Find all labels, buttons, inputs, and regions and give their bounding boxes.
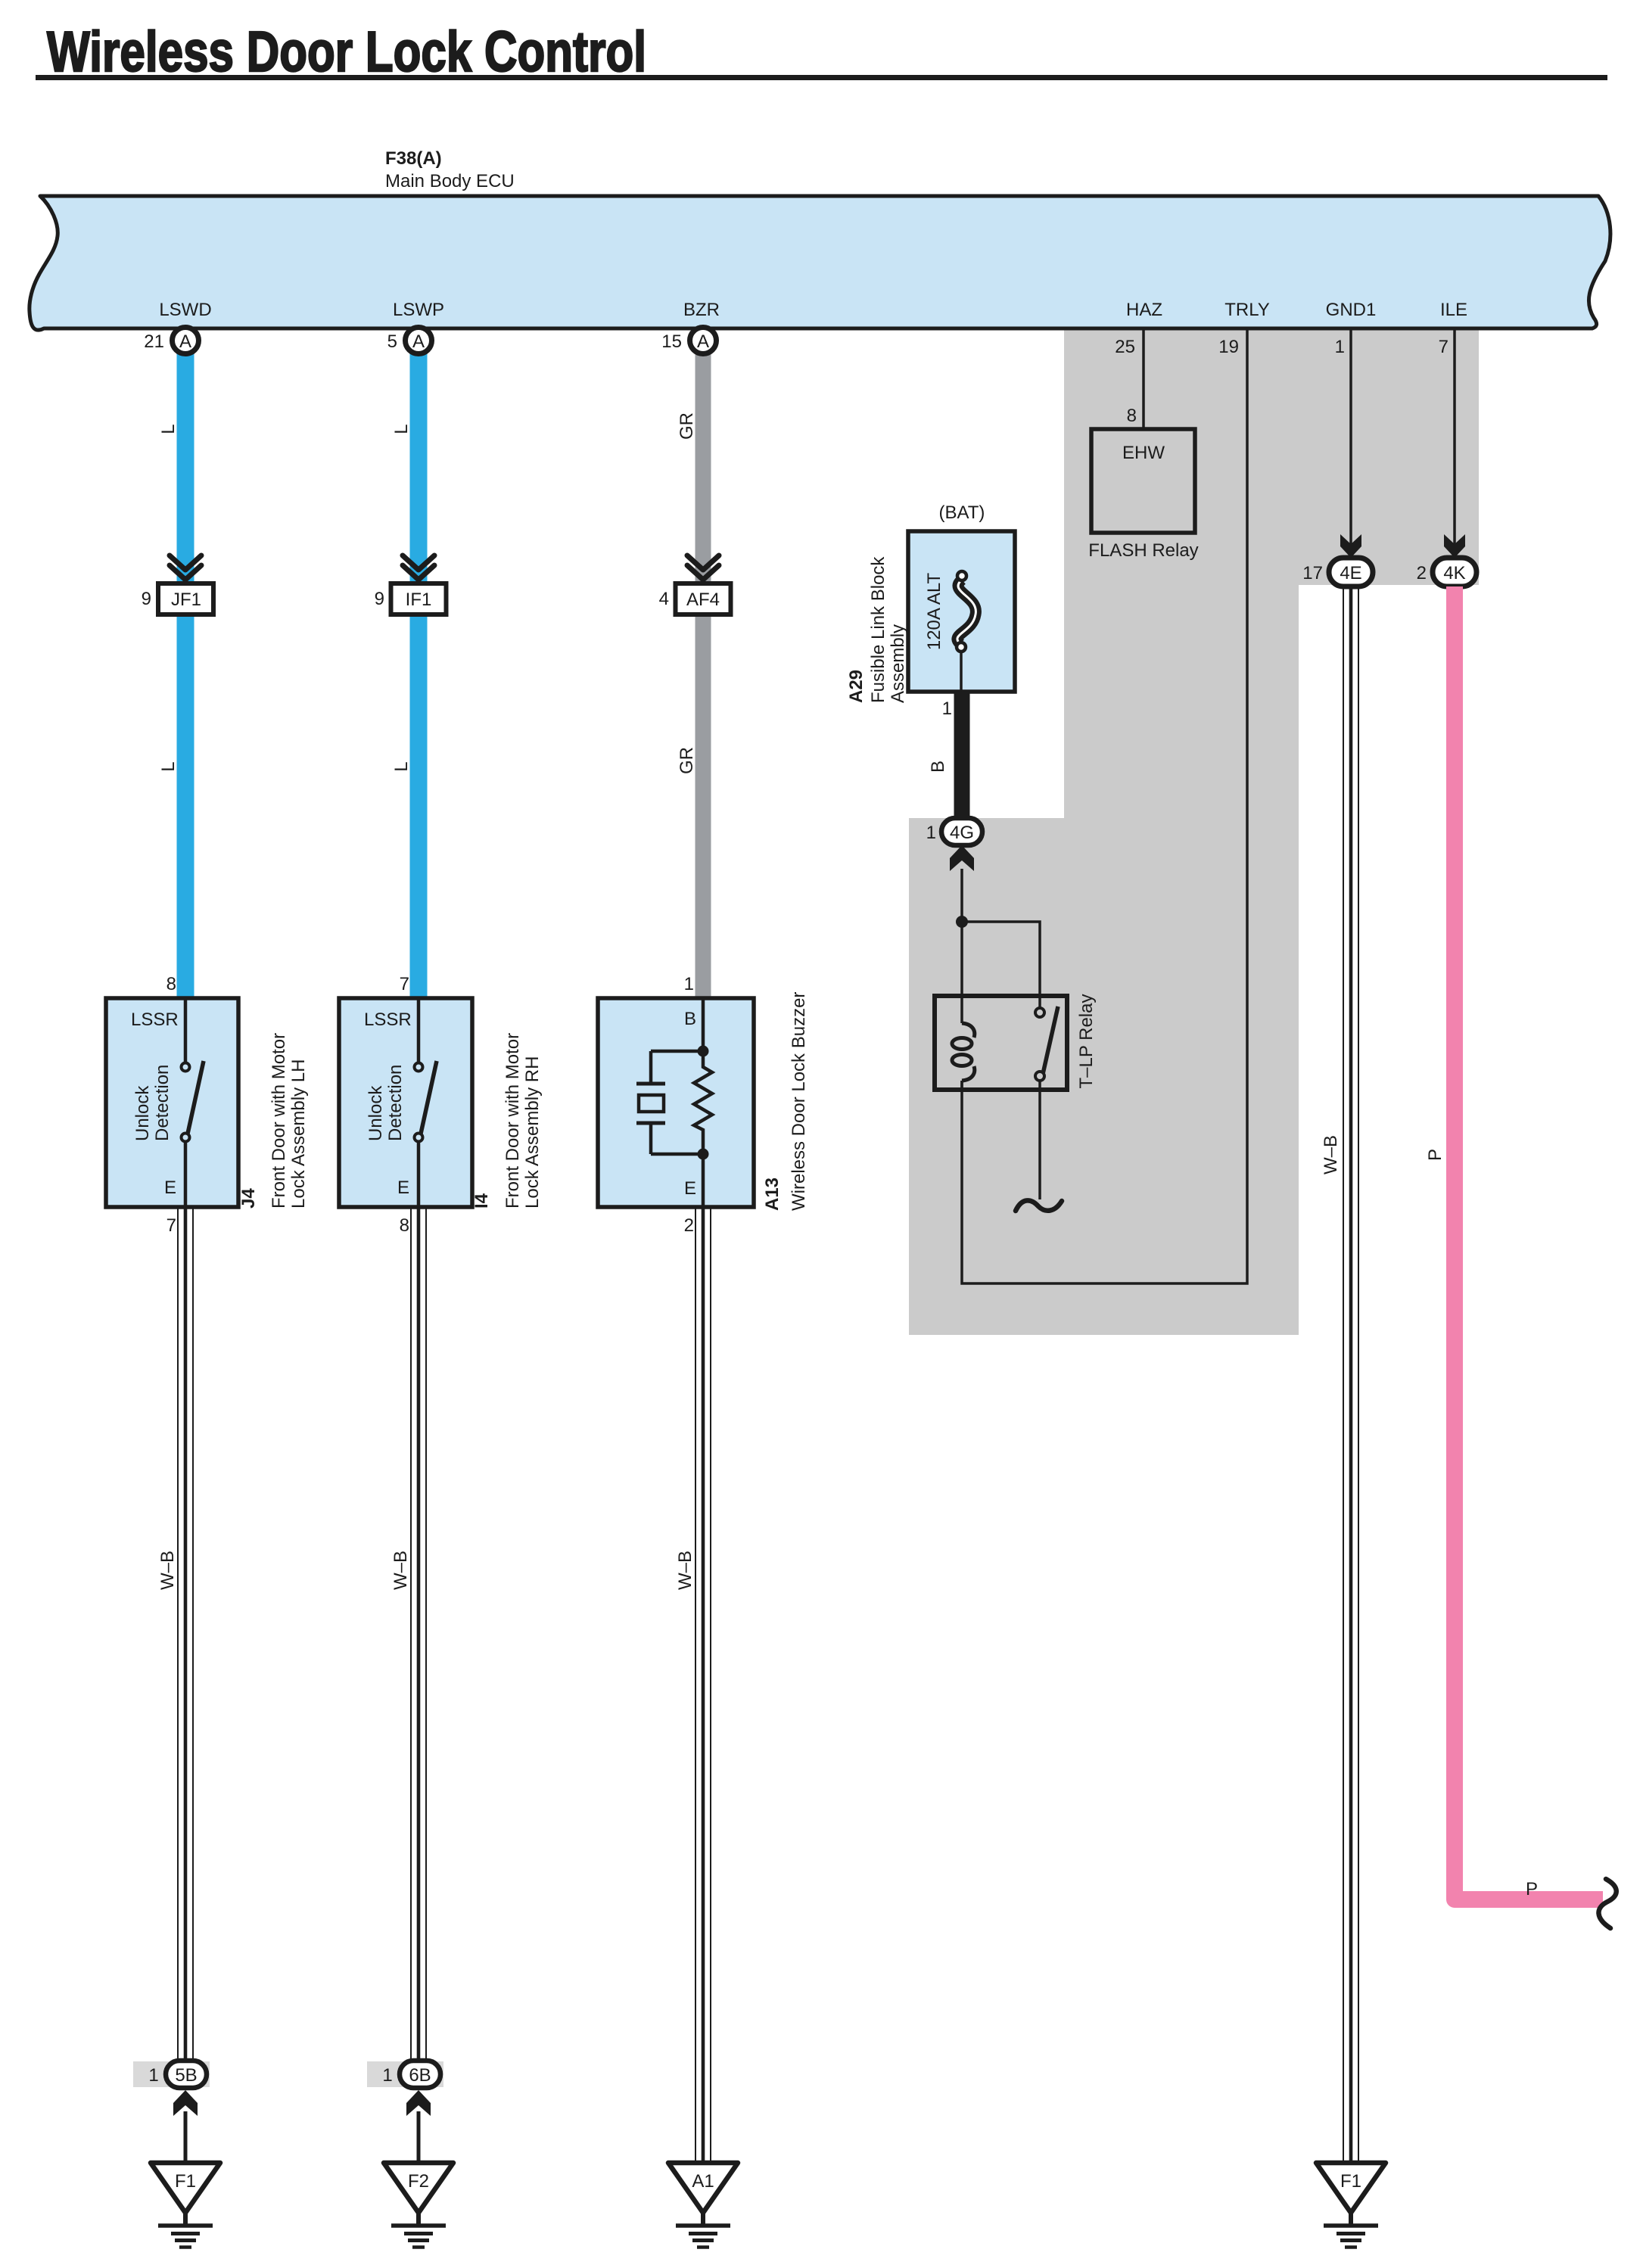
unlock detection switch (RH) [415,998,437,1207]
arrow into 6B [406,2090,431,2116]
svg-text:A: A [412,331,425,352]
wire 5B to ground [184,2111,188,2163]
relay box T-LP Relay [935,996,1067,1090]
svg-text:15: 15 [661,331,682,352]
svg-text:Unlock: Unlock [132,1085,153,1141]
connector 4G pin 1 [926,818,982,845]
svg-text:A13: A13 [762,1178,783,1211]
svg-text:4G: 4G [950,823,974,843]
ground F2 [384,2163,453,2248]
svg-text:T–LP Relay: T–LP Relay [1076,994,1097,1089]
arrow into 4E [1340,534,1361,558]
svg-text:19: 19 [1218,337,1239,357]
wire TRLY to relay coil [962,328,1247,1283]
connector A circle pin 21 (LSWD) [144,328,198,354]
svg-text:1: 1 [926,823,936,843]
wire 4G to junction [960,869,963,922]
wire B black (fusible link to 4G) [954,692,970,818]
svg-text:L: L [391,424,412,434]
wire W-B (4E to ground F1 right) [1343,586,1358,2163]
svg-text:Front Door with Motor: Front Door with Motor [503,1033,523,1209]
wire P pink (4K) [1455,586,1603,1899]
svg-text:8: 8 [400,1215,409,1236]
svg-text:BZR: BZR [683,300,720,320]
svg-text:Lock Assembly LH: Lock Assembly LH [288,1059,309,1209]
svg-text:A1: A1 [692,2171,714,2192]
svg-text:JF1: JF1 [171,590,201,610]
svg-text:FLASH Relay: FLASH Relay [1088,540,1198,561]
svg-text:1: 1 [382,2065,392,2086]
svg-text:ILE: ILE [1440,300,1467,320]
component A13 Wireless Door Lock Buzzer [598,974,754,1236]
junction node [956,916,968,928]
title [36,20,1607,83]
wire W-B (LSWD to 5B) [178,1207,193,2061]
connector IF1 pin 9 [375,583,447,614]
svg-text:1: 1 [684,974,694,994]
ground F1 (left) [151,2163,220,2248]
svg-text:F38(A): F38(A) [385,148,442,169]
svg-text:J4: J4 [238,1188,259,1209]
svg-text:Lock Assembly RH: Lock Assembly RH [522,1056,543,1209]
svg-text:Fusible Link Block: Fusible Link Block [868,556,888,703]
connector 5B pin 1 [133,2061,210,2088]
svg-text:GR: GR [677,412,697,440]
svg-text:AF4: AF4 [686,590,720,610]
splice chevrons (LSWD) [170,555,201,580]
svg-text:1: 1 [942,698,952,719]
wire W-B (buzzer to ground A1) [695,1207,711,2163]
svg-text:120A ALT: 120A ALT [924,573,944,651]
svg-text:LSWD: LSWD [159,300,211,320]
svg-text:Wireless Door Lock Control: Wireless Door Lock Control [47,20,646,83]
svg-text:7: 7 [166,1215,176,1236]
connector 6B pin 1 [367,2061,443,2088]
continuation squiggle (pink wire end) [1598,1879,1616,1928]
svg-text:Wireless Door Lock Buzzer: Wireless Door Lock Buzzer [789,992,809,1211]
connector A circle pin 5 (LSWP) [387,328,432,354]
svg-text:7: 7 [400,974,409,994]
svg-text:B: B [684,1009,696,1029]
ground F1 (right) [1316,2163,1386,2248]
svg-text:W–B: W–B [157,1551,178,1590]
svg-text:LSSR: LSSR [131,1010,179,1030]
svg-text:8: 8 [166,974,176,994]
fusible link 120A ALT symbol [957,571,976,692]
svg-text:A29: A29 [846,670,867,703]
wire W-B (LSWP to 6B) [411,1207,426,2061]
wire junction to relay switch [962,922,1040,1008]
svg-text:8: 8 [1127,406,1137,426]
svg-text:L: L [158,761,179,771]
svg-text:(BAT): (BAT) [939,502,985,523]
svg-text:5B: 5B [175,2065,197,2086]
wire BZR gray GR [695,350,711,998]
wire junction to relay coil [960,922,963,1023]
svg-text:A: A [179,331,191,352]
svg-text:GND1: GND1 [1326,300,1377,320]
svg-text:E: E [684,1178,696,1199]
svg-text:25: 25 [1115,337,1135,357]
splice chevrons (LSWP) [403,555,434,580]
svg-text:P: P [1526,1879,1538,1899]
wire 6B to ground [417,2111,421,2163]
wire LSWD blue L [177,350,194,998]
svg-text:5: 5 [387,331,397,352]
connector AF4 pin 4 [659,583,731,614]
junction dot buzzer bottom [698,1149,709,1160]
svg-text:LSSR: LSSR [364,1010,412,1030]
svg-text:I4: I4 [471,1193,492,1209]
svg-text:21: 21 [144,331,164,352]
component J4 Front Door with Motor Lock Assembly LH [106,974,238,1236]
svg-text:F1: F1 [175,2171,196,2192]
arrow into 4G [950,845,974,871]
svg-text:6B: 6B [409,2065,431,2086]
FLASH relay box EHW [1088,429,1198,561]
svg-text:A: A [697,331,709,352]
svg-text:LSWP: LSWP [393,300,444,320]
svg-text:2: 2 [1417,563,1427,583]
wire HAZ to EHW relay [1142,328,1145,429]
svg-text:17: 17 [1302,563,1323,583]
svg-text:Unlock: Unlock [366,1085,386,1141]
arrow into 4K [1444,534,1465,558]
svg-text:Front Door with Motor: Front Door with Motor [269,1033,289,1209]
svg-text:7: 7 [1439,337,1449,357]
relay coil [952,1023,975,1090]
svg-text:1: 1 [148,2065,158,2086]
svg-text:W–B: W–B [1321,1135,1341,1174]
svg-text:IF1: IF1 [406,590,432,610]
relay switch [1035,1006,1058,1199]
svg-text:Assembly: Assembly [888,624,908,703]
svg-text:9: 9 [375,589,384,609]
arrow into 5B [173,2090,198,2116]
component A29 Fusible Link Block Assembly [908,531,1015,692]
svg-text:F1: F1 [1340,2171,1361,2192]
ECU F38(A) Main Body ECU box [30,148,1610,330]
svg-text:TRLY: TRLY [1224,300,1270,320]
svg-text:L: L [391,761,412,771]
svg-text:P: P [1425,1149,1445,1161]
svg-text:HAZ: HAZ [1126,300,1162,320]
svg-text:Detection: Detection [385,1065,406,1141]
connector 4K pin 2 [1417,558,1477,586]
continuation squiggle (relay switch wire) [1016,1200,1062,1211]
connector JF1 pin 9 [142,583,213,614]
svg-text:B: B [928,761,948,773]
svg-text:Main Body ECU: Main Body ECU [385,171,515,191]
svg-text:W–B: W–B [391,1551,411,1590]
connector 4E pin 17 [1302,558,1373,586]
component I4 Front Door with Motor Lock Assembly RH [339,974,472,1236]
ground A1 [668,2163,738,2248]
svg-text:EHW: EHW [1122,443,1165,463]
svg-text:4E: 4E [1340,563,1361,583]
connector A circle pin 15 (BZR) [661,328,716,354]
svg-text:L: L [158,424,179,434]
wire LSWP blue L [410,350,428,998]
wire ILE to 4K [1453,328,1456,552]
harness shading (gray) [909,328,1479,1335]
svg-text:E: E [397,1178,409,1198]
svg-text:9: 9 [142,589,151,609]
buzzer symbol [636,998,712,1207]
svg-text:1: 1 [1335,337,1345,357]
svg-text:4: 4 [659,589,669,609]
svg-text:2: 2 [684,1215,694,1236]
svg-text:GR: GR [677,747,697,774]
wire GND1 to 4E [1349,328,1352,552]
junction dot buzzer top [698,1046,709,1057]
svg-text:Detection: Detection [152,1065,173,1141]
svg-text:4K: 4K [1443,563,1465,583]
svg-text:W–B: W–B [675,1551,695,1590]
svg-text:F2: F2 [408,2171,429,2192]
splice chevrons (BZR) [687,555,719,580]
unlock detection switch (LH) [182,998,204,1207]
svg-text:E: E [164,1178,176,1198]
